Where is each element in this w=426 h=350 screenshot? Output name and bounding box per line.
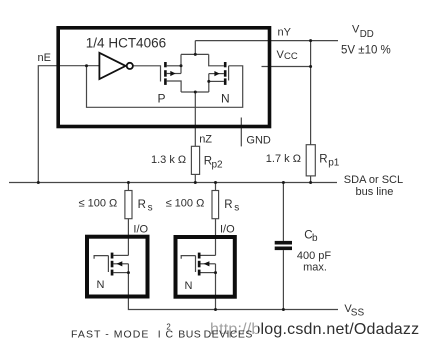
svg-text:N: N (97, 279, 105, 291)
svg-text:1.7 k Ω: 1.7 k Ω (266, 153, 301, 165)
svg-text:SDA or SCL: SDA or SCL (344, 174, 403, 186)
svg-text:V: V (352, 24, 360, 36)
svg-text:DD: DD (360, 29, 374, 40)
svg-text:bus line: bus line (356, 186, 394, 198)
svg-text:CC: CC (284, 51, 298, 62)
svg-text:≤ 100 Ω: ≤ 100 Ω (166, 198, 205, 210)
svg-text:nE: nE (38, 52, 51, 64)
svg-text:SS: SS (351, 308, 365, 319)
svg-text:5V ±10 %: 5V ±10 % (341, 45, 391, 57)
svg-text:nY: nY (278, 27, 292, 39)
svg-text:R: R (224, 199, 232, 211)
svg-text:DEVICES: DEVICES (204, 328, 253, 340)
svg-text:I: I (158, 328, 161, 340)
svg-text:p2: p2 (212, 160, 224, 171)
svg-text:max.: max. (303, 261, 327, 273)
svg-text:C: C (166, 328, 174, 340)
svg-text:1.3 k Ω: 1.3 k Ω (151, 154, 186, 166)
svg-text:nZ: nZ (199, 134, 212, 146)
svg-text:R: R (138, 199, 146, 211)
svg-text:p1: p1 (328, 158, 340, 169)
svg-text:N: N (221, 92, 230, 106)
svg-text:≤ 100 Ω: ≤ 100 Ω (79, 198, 118, 210)
svg-text:s: s (234, 202, 239, 213)
svg-text:FAST - MODE: FAST - MODE (71, 328, 149, 340)
svg-text:I/O: I/O (220, 224, 235, 236)
svg-text:R: R (319, 154, 327, 166)
svg-text:1/4 HCT4066: 1/4 HCT4066 (86, 35, 166, 50)
svg-text:BUS: BUS (178, 328, 201, 340)
svg-text:b: b (312, 233, 318, 244)
svg-text:N: N (185, 280, 193, 292)
svg-text:I/O: I/O (133, 224, 148, 236)
svg-text:P: P (158, 92, 166, 106)
svg-text:s: s (148, 202, 153, 213)
svg-text:GND: GND (246, 135, 271, 147)
svg-text:400 pF: 400 pF (297, 250, 332, 262)
